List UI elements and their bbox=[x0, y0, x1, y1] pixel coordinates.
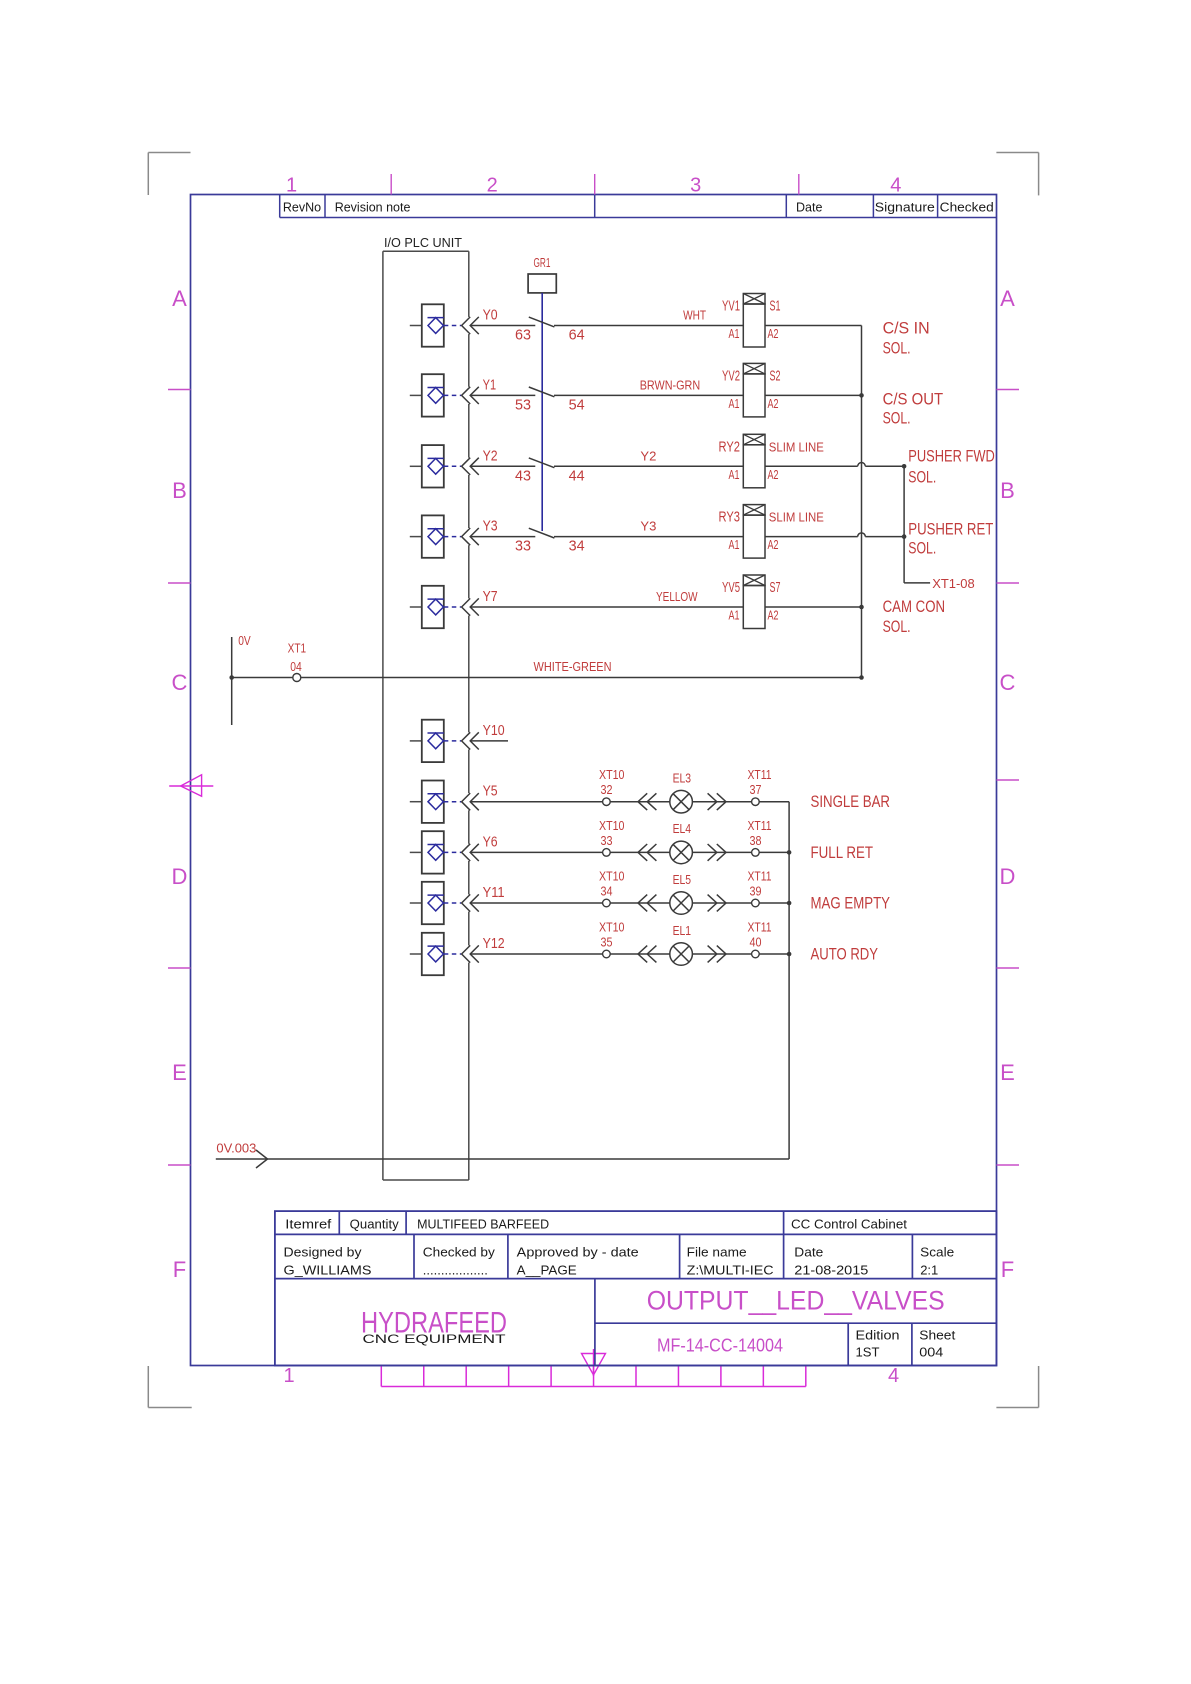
svg-text:SOL.: SOL. bbox=[908, 539, 936, 558]
svg-text:1ST: 1ST bbox=[856, 1345, 880, 1360]
wire contact to coil YV1 bbox=[554, 325, 743, 327]
svg-text:44: 44 bbox=[569, 467, 585, 484]
svg-text:Date: Date bbox=[796, 201, 822, 215]
svg-text:64: 64 bbox=[569, 327, 585, 344]
svg-text:Y1: Y1 bbox=[483, 377, 497, 393]
svg-text:38: 38 bbox=[750, 834, 762, 848]
svg-text:GR1: GR1 bbox=[534, 256, 551, 270]
wire Y3 to contact bbox=[470, 536, 535, 538]
svg-text:XT10: XT10 bbox=[599, 768, 625, 782]
label CAM CON SOL. bbox=[883, 597, 946, 636]
svg-text:A1: A1 bbox=[729, 538, 740, 552]
wire XT11 to lamp bus bbox=[759, 851, 789, 853]
svg-text:Checked by: Checked by bbox=[423, 1245, 496, 1260]
svg-text:SOL.: SOL. bbox=[883, 617, 911, 636]
wire Y6 to XT10-33 bbox=[470, 851, 602, 853]
svg-text:Y3: Y3 bbox=[483, 519, 498, 535]
PLC output Y2 bbox=[410, 445, 498, 487]
solenoid coil YV2 bbox=[722, 363, 781, 417]
PLC output Y11 bbox=[410, 882, 505, 924]
wire coil A2 to 0V bus bbox=[765, 394, 862, 396]
svg-text:Y10: Y10 bbox=[483, 723, 505, 739]
junction on 0V bus bbox=[859, 605, 864, 610]
wire Y2 to contact bbox=[470, 465, 535, 467]
svg-text:A1: A1 bbox=[729, 397, 740, 411]
chevrons left bbox=[638, 946, 656, 963]
label PUSHER FWD SOL. bbox=[908, 446, 995, 486]
svg-text:A1: A1 bbox=[729, 327, 740, 341]
svg-text:Y3: Y3 bbox=[640, 519, 656, 534]
svg-text:..................: .................. bbox=[423, 1263, 488, 1278]
terminal XT10-33 bbox=[599, 819, 625, 856]
lamp EL3 bbox=[670, 772, 693, 814]
svg-text:PUSHER FWD: PUSHER FWD bbox=[908, 446, 995, 465]
chevrons right bbox=[708, 895, 726, 912]
PLC output Y7 bbox=[410, 586, 498, 628]
svg-text:WHITE-GREEN: WHITE-GREEN bbox=[534, 659, 612, 674]
svg-text:A2: A2 bbox=[768, 397, 779, 411]
lamp bus vertical to 0V.003 bbox=[788, 802, 790, 1159]
chevrons left bbox=[638, 793, 656, 810]
wire contact to coil RY3 bbox=[554, 536, 743, 538]
wire XT11 to lamp bus bbox=[759, 953, 789, 955]
XT1-08 bus vertical bbox=[903, 466, 905, 583]
svg-text:F: F bbox=[173, 1257, 186, 1282]
chevrons left bbox=[638, 895, 656, 912]
wire lamp to XT11 bbox=[692, 801, 751, 803]
svg-text:BRWN-GRN: BRWN-GRN bbox=[640, 377, 701, 392]
svg-text:SLIM LINE: SLIM LINE bbox=[769, 439, 824, 454]
svg-text:OUTPUT__LED__VALVES: OUTPUT__LED__VALVES bbox=[647, 1286, 945, 1316]
junction on lamp bus bbox=[787, 901, 792, 906]
svg-text:EL5: EL5 bbox=[673, 873, 692, 887]
PLC output Y5 bbox=[410, 781, 498, 823]
svg-text:32: 32 bbox=[601, 783, 613, 797]
svg-text:21-08-2015: 21-08-2015 bbox=[794, 1263, 868, 1278]
svg-text:Edition: Edition bbox=[856, 1328, 900, 1343]
chevrons right bbox=[708, 844, 726, 861]
svg-text:Revision note: Revision note bbox=[335, 201, 411, 215]
junction 0V bus to rail bbox=[859, 675, 864, 680]
wire lamp to XT11 bbox=[692, 902, 751, 904]
svg-text:34: 34 bbox=[569, 538, 585, 555]
svg-text:B: B bbox=[1000, 478, 1015, 503]
contact GR1 33-34 bbox=[515, 528, 585, 554]
chevrons left bbox=[638, 844, 656, 861]
terminal XT10-35 bbox=[599, 921, 625, 958]
svg-text:A1: A1 bbox=[729, 609, 740, 623]
svg-text:40: 40 bbox=[750, 936, 762, 950]
terminal XT11-38 bbox=[748, 819, 772, 856]
terminal XT11-37 bbox=[748, 768, 772, 805]
svg-text:XT11: XT11 bbox=[748, 870, 772, 884]
svg-text:A1: A1 bbox=[729, 468, 740, 482]
title block bbox=[275, 1211, 997, 1365]
svg-text:Scale: Scale bbox=[920, 1245, 954, 1260]
svg-text:Y12: Y12 bbox=[483, 936, 505, 952]
svg-text:4: 4 bbox=[890, 175, 901, 197]
svg-text:YV2: YV2 bbox=[722, 368, 740, 384]
svg-text:Y7: Y7 bbox=[483, 589, 498, 605]
svg-text:XT1-08: XT1-08 bbox=[932, 576, 975, 591]
svg-text:RY3: RY3 bbox=[719, 510, 741, 526]
svg-text:SOL.: SOL. bbox=[908, 467, 936, 486]
svg-text:SOL.: SOL. bbox=[883, 339, 911, 358]
wire coil A2 with hop over 0V bus to XT1-08 bus bbox=[765, 536, 858, 538]
svg-text:2:1: 2:1 bbox=[920, 1263, 938, 1278]
svg-text:A: A bbox=[172, 286, 187, 311]
svg-text:A__PAGE: A__PAGE bbox=[517, 1263, 577, 1278]
svg-text:04: 04 bbox=[290, 660, 302, 674]
lamp EL5 bbox=[670, 873, 693, 915]
svg-text:MULTIFEED BARFEED: MULTIFEED BARFEED bbox=[417, 1217, 549, 1232]
contact GR1 43-44 bbox=[515, 458, 585, 484]
relay GR1 bbox=[528, 256, 556, 293]
svg-text:3: 3 bbox=[690, 175, 701, 197]
arrow 0V.003 bbox=[256, 1150, 268, 1168]
solenoid coil YV5 bbox=[722, 575, 781, 629]
wire Y12 to XT10-35 bbox=[470, 953, 602, 955]
svg-text:63: 63 bbox=[515, 327, 531, 344]
wire coil A2 to 0V bus bbox=[765, 606, 862, 608]
wire to lamp bbox=[610, 801, 670, 803]
node 0V.003 rail bbox=[216, 1158, 789, 1160]
svg-text:Sheet: Sheet bbox=[919, 1328, 955, 1343]
0V bus vertical bbox=[861, 326, 863, 678]
border frame bbox=[148, 153, 1038, 1408]
svg-text:Signature: Signature bbox=[875, 201, 935, 215]
wire XT11 to lamp bus bbox=[759, 801, 789, 803]
svg-text:E: E bbox=[1000, 1060, 1015, 1085]
svg-text:Y5: Y5 bbox=[483, 784, 498, 800]
svg-text:RY2: RY2 bbox=[719, 439, 741, 455]
terminal XT10-34 bbox=[599, 870, 625, 907]
lamp EL1 bbox=[670, 924, 693, 966]
wire XT11 to lamp bus bbox=[759, 902, 789, 904]
svg-text:C/S IN: C/S IN bbox=[883, 319, 930, 338]
wire contact to coil RY2 bbox=[554, 465, 743, 467]
svg-text:B: B bbox=[172, 478, 187, 503]
svg-text:CNC EQUIPMENT: CNC EQUIPMENT bbox=[363, 1334, 506, 1346]
svg-text:XT1: XT1 bbox=[288, 642, 307, 656]
svg-text:S7: S7 bbox=[770, 580, 781, 596]
junction on XT1-08 bus bbox=[902, 464, 907, 469]
svg-text:Y0: Y0 bbox=[483, 308, 498, 324]
wire Y7 to coil YV5 bbox=[470, 606, 743, 608]
svg-text:Date: Date bbox=[794, 1245, 823, 1260]
wire contact to coil YV2 bbox=[554, 394, 743, 396]
svg-text:33: 33 bbox=[515, 538, 531, 555]
svg-text:S1: S1 bbox=[770, 299, 781, 315]
svg-text:YV5: YV5 bbox=[722, 580, 740, 596]
wire to lamp bbox=[610, 902, 670, 904]
svg-text:SINGLE BAR: SINGLE BAR bbox=[811, 792, 891, 811]
node 0V rail bbox=[232, 637, 862, 725]
PLC output Y12 bbox=[410, 933, 505, 975]
svg-text:C: C bbox=[172, 670, 188, 695]
junction on lamp bus bbox=[787, 850, 792, 855]
PLC output Y6 bbox=[410, 831, 498, 873]
svg-text:File name: File name bbox=[687, 1245, 747, 1260]
svg-text:0V.003: 0V.003 bbox=[216, 1142, 256, 1156]
svg-text:2: 2 bbox=[487, 175, 498, 197]
PLC output Y0 bbox=[410, 304, 498, 346]
svg-text:XT10: XT10 bbox=[599, 819, 625, 833]
svg-text:37: 37 bbox=[750, 783, 762, 797]
svg-text:Approved by - date: Approved by - date bbox=[517, 1245, 639, 1260]
svg-text:F: F bbox=[1001, 1257, 1014, 1282]
svg-text:Z:\MULTI-IEC: Z:\MULTI-IEC bbox=[687, 1263, 774, 1278]
svg-text:XT10: XT10 bbox=[599, 870, 625, 884]
svg-text:A2: A2 bbox=[768, 327, 779, 341]
svg-text:34: 34 bbox=[601, 885, 613, 899]
svg-text:CC Control Cabinet: CC Control Cabinet bbox=[791, 1217, 907, 1232]
svg-text:004: 004 bbox=[919, 1345, 943, 1360]
GR1 link line bbox=[541, 293, 543, 531]
svg-text:A: A bbox=[1000, 286, 1015, 311]
junction on lamp bus bbox=[787, 952, 792, 957]
svg-text:PUSHER RET: PUSHER RET bbox=[908, 520, 993, 539]
svg-text:35: 35 bbox=[601, 936, 613, 950]
svg-text:SLIM LINE: SLIM LINE bbox=[769, 510, 824, 525]
label C/S OUT SOL. bbox=[883, 389, 944, 427]
svg-text:1: 1 bbox=[286, 175, 297, 197]
contact GR1 63-64 bbox=[515, 317, 585, 343]
svg-text:C: C bbox=[1000, 670, 1016, 695]
svg-text:A2: A2 bbox=[768, 468, 779, 482]
svg-text:YV1: YV1 bbox=[722, 299, 740, 315]
svg-text:43: 43 bbox=[515, 467, 531, 484]
HYDRAFEED logo bbox=[361, 1307, 507, 1347]
svg-text:Designed by: Designed by bbox=[284, 1245, 363, 1260]
svg-text:CAM CON: CAM CON bbox=[883, 597, 946, 616]
junction on 0V bus bbox=[859, 393, 864, 398]
svg-text:C/S OUT: C/S OUT bbox=[883, 389, 944, 408]
chevrons right bbox=[708, 793, 726, 810]
svg-text:Checked: Checked bbox=[940, 201, 994, 215]
svg-text:Y2: Y2 bbox=[640, 448, 656, 463]
svg-text:EL1: EL1 bbox=[673, 924, 692, 938]
svg-text:YELLOW: YELLOW bbox=[656, 589, 698, 604]
I/O PLC UNIT box bbox=[383, 235, 469, 1180]
svg-text:Quantity: Quantity bbox=[350, 1217, 399, 1232]
wire to terminal XT1-08 bbox=[904, 582, 930, 584]
label PUSHER RET SOL. bbox=[908, 520, 993, 558]
solenoid coil YV1 bbox=[722, 294, 781, 348]
svg-text:XT11: XT11 bbox=[748, 921, 772, 935]
wire Y1 to contact bbox=[470, 394, 535, 396]
svg-text:Y11: Y11 bbox=[483, 885, 505, 901]
lamp EL4 bbox=[670, 822, 693, 864]
svg-text:Y6: Y6 bbox=[483, 834, 498, 850]
revision table bbox=[280, 195, 997, 218]
svg-text:EL4: EL4 bbox=[673, 822, 692, 836]
svg-text:EL3: EL3 bbox=[673, 772, 692, 786]
svg-text:XT10: XT10 bbox=[599, 921, 625, 935]
wire to lamp bbox=[610, 953, 670, 955]
svg-text:4: 4 bbox=[888, 1365, 899, 1387]
svg-text:I/O PLC UNIT: I/O PLC UNIT bbox=[384, 235, 462, 250]
terminal XT10-32 bbox=[599, 768, 625, 805]
PLC output Y10 bbox=[410, 720, 505, 762]
wire coil A2 to 0V bus corner bbox=[765, 325, 862, 327]
PLC output Y3 bbox=[410, 515, 498, 557]
svg-text:D: D bbox=[1000, 864, 1016, 889]
junction on XT1-08 bus bbox=[902, 534, 907, 539]
wire Y11 to XT10-34 bbox=[470, 902, 602, 904]
terminal XT11-39 bbox=[748, 870, 772, 907]
wire lamp to XT11 bbox=[692, 953, 751, 955]
wire lamp to XT11 bbox=[692, 851, 751, 853]
svg-text:53: 53 bbox=[515, 396, 531, 413]
svg-text:SOL.: SOL. bbox=[883, 408, 911, 427]
svg-text:AUTO RDY: AUTO RDY bbox=[811, 945, 879, 964]
chevrons right bbox=[708, 946, 726, 963]
svg-text:54: 54 bbox=[569, 396, 585, 413]
svg-text:MF-14-CC-14004: MF-14-CC-14004 bbox=[657, 1336, 783, 1356]
svg-text:33: 33 bbox=[601, 834, 613, 848]
solenoid coil RY2 bbox=[719, 434, 825, 488]
svg-text:WHT: WHT bbox=[683, 308, 706, 323]
svg-text:FULL RET: FULL RET bbox=[811, 843, 874, 862]
label C/S IN SOL. bbox=[883, 319, 930, 358]
svg-text:Y2: Y2 bbox=[483, 448, 498, 464]
svg-text:RevNo: RevNo bbox=[283, 201, 321, 215]
svg-text:A2: A2 bbox=[768, 538, 779, 552]
terminal XT11-40 bbox=[748, 921, 772, 958]
svg-text:S2: S2 bbox=[770, 368, 781, 384]
svg-text:39: 39 bbox=[750, 885, 762, 899]
wire Y5 to XT10-32 bbox=[470, 801, 602, 803]
wire to lamp bbox=[610, 851, 670, 853]
svg-text:XT11: XT11 bbox=[748, 768, 772, 782]
wire Y10 stub bbox=[470, 740, 508, 742]
svg-text:Itemref: Itemref bbox=[285, 1217, 331, 1232]
junction 0V stub bbox=[229, 675, 234, 680]
svg-text:D: D bbox=[172, 864, 188, 889]
svg-text:E: E bbox=[172, 1060, 187, 1085]
PLC output Y1 bbox=[410, 374, 496, 416]
svg-text:G_WILLIAMS: G_WILLIAMS bbox=[284, 1263, 372, 1278]
terminal XT1-04 bbox=[288, 642, 307, 682]
svg-text:0V: 0V bbox=[238, 634, 251, 648]
svg-text:MAG EMPTY: MAG EMPTY bbox=[811, 894, 891, 913]
svg-text:A2: A2 bbox=[768, 609, 779, 623]
contact GR1 53-54 bbox=[515, 387, 585, 413]
wire Y0 to contact bbox=[470, 325, 535, 327]
solenoid coil RY3 bbox=[719, 505, 825, 558]
wire coil A2 with hop over 0V bus to XT1-08 bus bbox=[765, 465, 858, 467]
svg-text:1: 1 bbox=[283, 1365, 294, 1387]
svg-text:XT11: XT11 bbox=[748, 819, 772, 833]
